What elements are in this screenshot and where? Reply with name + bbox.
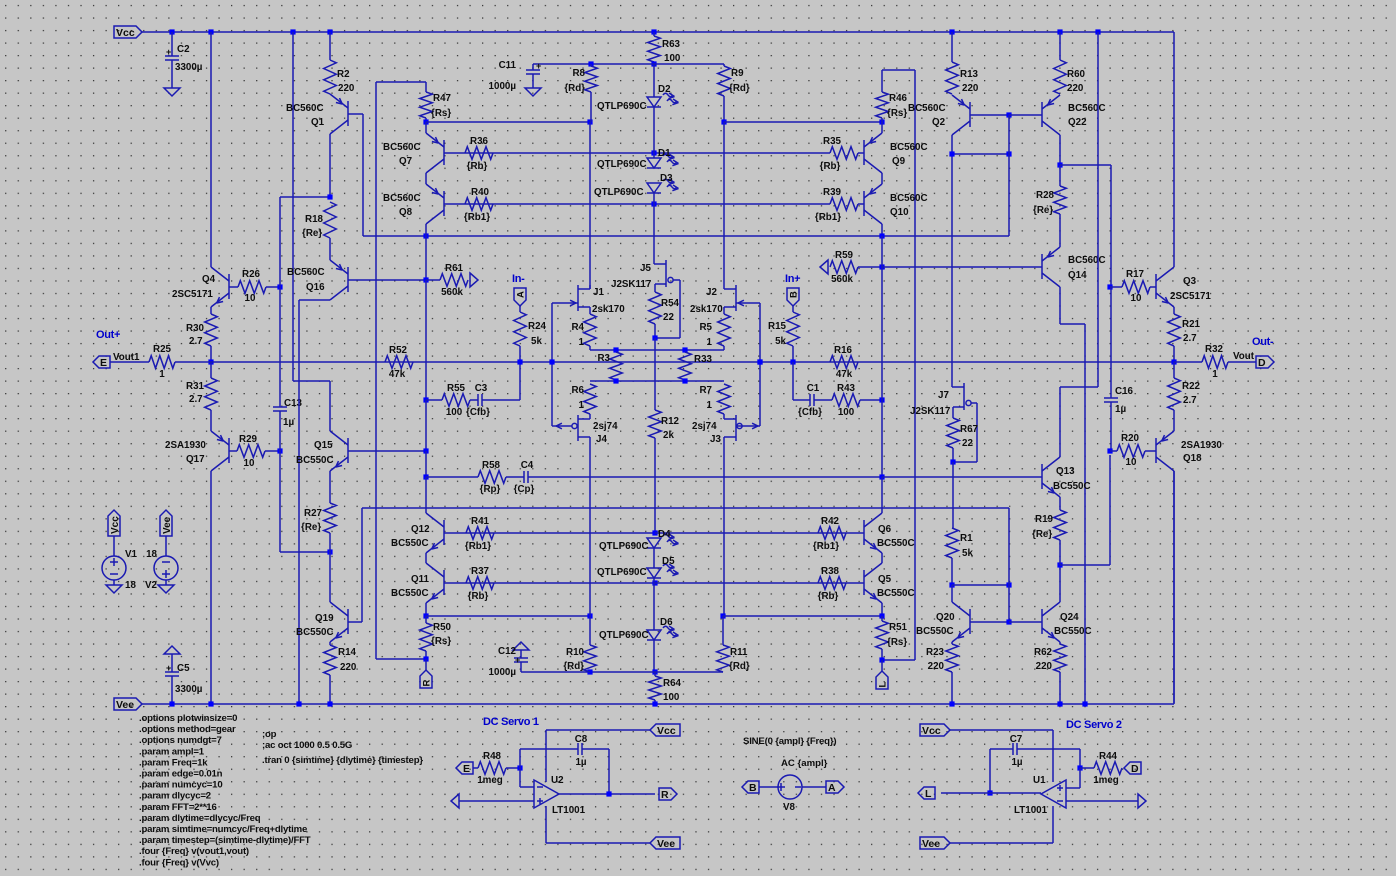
junction at (1060,565) bbox=[1057, 562, 1062, 567]
flag Vcc above V1 bbox=[108, 510, 120, 536]
svg-text:.options plotwinsize=0: .options plotwinsize=0 bbox=[139, 713, 237, 724]
svg-text:AC {ampl}: AC {ampl} bbox=[781, 758, 828, 769]
svg-text:220: 220 bbox=[338, 83, 355, 94]
transistor Q13 bbox=[1042, 457, 1060, 497]
svg-text:B: B bbox=[749, 782, 757, 794]
junction at (591,64) bbox=[588, 61, 593, 66]
resistor R36 bbox=[465, 136, 493, 172]
wire U1 V+ drop bbox=[1052, 730, 1054, 782]
junction at (882,236) bbox=[879, 233, 884, 238]
wire Vcc to R13 bbox=[951, 32, 953, 62]
svg-text:1: 1 bbox=[707, 337, 713, 348]
op-amp U1 LT1001 (mirrored) bbox=[1014, 775, 1066, 816]
wire R8 to junction bbox=[590, 92, 592, 122]
junction at (520,362) bbox=[517, 359, 522, 364]
resistor R47 bbox=[420, 92, 452, 119]
wire R14 to Vee bbox=[329, 675, 331, 704]
wire right bias column bbox=[914, 70, 916, 660]
wire R48 out bbox=[506, 767, 520, 769]
resistor R20 bbox=[1117, 433, 1145, 468]
svg-text:R: R bbox=[661, 789, 669, 801]
resistor R3 bbox=[597, 352, 700, 876]
wire J2/J3 gate column bbox=[759, 303, 761, 426]
capacitor C12 bbox=[489, 646, 528, 678]
svg-text:BC560C: BC560C bbox=[287, 267, 325, 278]
svg-text:R16: R16 bbox=[834, 345, 853, 356]
svg-text:R36: R36 bbox=[470, 136, 489, 147]
svg-text:R37: R37 bbox=[471, 566, 490, 577]
svg-text:C4: C4 bbox=[521, 460, 534, 471]
svg-text:BC550C: BC550C bbox=[391, 588, 429, 599]
transistor Q20 bbox=[952, 602, 970, 642]
svg-text:Q3: Q3 bbox=[1183, 276, 1197, 287]
junction at (426,477) bbox=[423, 474, 428, 479]
wire C3 out bbox=[482, 399, 520, 401]
ground below C11 bbox=[525, 88, 541, 96]
svg-text:1000µ: 1000µ bbox=[489, 667, 517, 678]
wire junction to Q7 bbox=[425, 122, 427, 133]
svg-text:D5: D5 bbox=[662, 556, 675, 567]
wire Q4 base lead bbox=[229, 286, 238, 288]
svg-text:R51: R51 bbox=[889, 622, 908, 633]
wire Q18 collector to Vee rail bbox=[1173, 471, 1175, 703]
wire R62 to Vee bbox=[1059, 672, 1061, 704]
svg-text:R47: R47 bbox=[433, 93, 452, 104]
junction at (609,794) bbox=[606, 791, 611, 796]
resistor R61 bbox=[440, 263, 468, 298]
svg-text:Q9: Q9 bbox=[892, 156, 906, 167]
junction at (655,672) bbox=[652, 669, 657, 674]
wire C7 left bbox=[990, 748, 1013, 750]
resistor R67 bbox=[947, 418, 979, 449]
wire R24 to node bbox=[519, 346, 521, 362]
wire to R11 bbox=[722, 616, 724, 645]
ground above C5 bbox=[164, 646, 180, 654]
svg-text:R58: R58 bbox=[482, 460, 501, 471]
svg-text:R46: R46 bbox=[889, 93, 908, 104]
junction at (590,122) bbox=[587, 119, 592, 124]
resistor R1 bbox=[946, 528, 974, 559]
svg-text:2sj74: 2sj74 bbox=[593, 421, 618, 432]
wire column bbox=[425, 477, 427, 513]
svg-text:Q5: Q5 bbox=[878, 574, 892, 585]
svg-text:18: 18 bbox=[125, 580, 136, 591]
wire to Q24 base bbox=[1009, 621, 1042, 623]
wire to R28 bbox=[1059, 165, 1061, 186]
svg-text:R9: R9 bbox=[731, 68, 744, 79]
svg-text:2SA1930: 2SA1930 bbox=[1181, 440, 1222, 451]
resistor R33 bbox=[679, 352, 713, 876]
JFET J4 2sj74 bbox=[552, 415, 618, 445]
svg-text:BC560C: BC560C bbox=[1068, 255, 1106, 266]
wire column to C13 bbox=[279, 197, 281, 407]
wire U1 V- drop bbox=[1052, 806, 1054, 843]
wire Q12-Q11 bbox=[425, 553, 427, 563]
wire upper cascode base line bbox=[444, 152, 830, 154]
junction at (426,451) bbox=[423, 448, 428, 453]
svg-text:C1: C1 bbox=[807, 383, 820, 394]
svg-text:2.7: 2.7 bbox=[189, 336, 203, 347]
wire cascode top right bbox=[724, 121, 882, 123]
wire R5 out bbox=[723, 346, 725, 350]
svg-text:22: 22 bbox=[962, 438, 973, 449]
svg-text:DC Servo 1: DC Servo 1 bbox=[483, 716, 539, 728]
svg-text:.options method=gear: .options method=gear bbox=[139, 724, 236, 735]
wire junction to Q9 bbox=[881, 122, 883, 133]
wire R35 to Q9 base bbox=[858, 152, 864, 154]
wire to U1 input bbox=[1079, 768, 1081, 788]
wire to R8 bbox=[590, 64, 592, 66]
wire left bias column bbox=[375, 82, 377, 659]
wire to R51 bbox=[881, 616, 883, 621]
wire R17 to Q3 base bbox=[1150, 286, 1156, 288]
svg-text:C11: C11 bbox=[499, 60, 517, 71]
wire inv input bbox=[520, 786, 534, 788]
wire C8 feedback riser bbox=[608, 749, 610, 794]
flag Vee for U2 bbox=[650, 837, 680, 849]
wire R19 out bbox=[1059, 540, 1061, 565]
svg-text:BC550C: BC550C bbox=[296, 455, 334, 466]
wire to R flag bbox=[425, 659, 427, 670]
svg-text:2sk170: 2sk170 bbox=[690, 304, 723, 315]
svg-text:BC550C: BC550C bbox=[916, 626, 954, 637]
svg-text:R6: R6 bbox=[571, 385, 584, 396]
resistor R9 bbox=[718, 66, 750, 96]
svg-text:R67: R67 bbox=[960, 424, 979, 435]
svg-text:BC560C: BC560C bbox=[890, 142, 928, 153]
transistor Q15 bbox=[330, 431, 348, 471]
wire second rail bbox=[363, 235, 1009, 237]
svg-text:560k: 560k bbox=[831, 274, 853, 285]
resistor R43 bbox=[832, 383, 860, 418]
wire E flag to R25 bbox=[110, 361, 149, 363]
wire to R10 bbox=[589, 616, 591, 645]
wire R1 bottom tie bbox=[952, 584, 1009, 586]
resistor R58 bbox=[478, 460, 506, 495]
wire U2 V+ supply bbox=[546, 729, 650, 731]
capacitor C13 bbox=[273, 398, 303, 428]
svg-text:R11: R11 bbox=[730, 647, 748, 658]
svg-text:J3: J3 bbox=[710, 434, 721, 445]
junction at (882,616) bbox=[879, 613, 884, 618]
junction at (1060,32) bbox=[1057, 29, 1062, 34]
svg-text:QTLP690C: QTLP690C bbox=[597, 101, 647, 112]
svg-text:{Rd}: {Rd} bbox=[729, 661, 750, 672]
resistor R28 bbox=[1033, 186, 1066, 216]
wire U1 V- supply bbox=[950, 842, 1053, 844]
svg-text:J2SK117: J2SK117 bbox=[611, 279, 652, 290]
wire R67 out bbox=[952, 448, 954, 462]
junction at (426,659) bbox=[423, 656, 428, 661]
svg-text:5k: 5k bbox=[531, 336, 542, 347]
svg-text:{Rd}: {Rd} bbox=[563, 661, 584, 672]
svg-text:Q14: Q14 bbox=[1068, 270, 1087, 281]
LED D3 bbox=[594, 173, 679, 198]
wire out node to R22 bbox=[1173, 362, 1175, 378]
svg-text:BC560C: BC560C bbox=[383, 142, 421, 153]
svg-text:;ac oct 1000 0.5 0.5G: ;ac oct 1000 0.5 0.5G bbox=[262, 740, 352, 751]
svg-text:C2: C2 bbox=[177, 44, 190, 55]
svg-text:C7: C7 bbox=[1010, 734, 1023, 745]
svg-text:.param ampl=1: .param ampl=1 bbox=[139, 746, 205, 757]
wire to Q13 collector bbox=[1060, 386, 1098, 388]
svg-text:R1: R1 bbox=[960, 533, 973, 544]
junction at (1098,32) bbox=[1095, 29, 1100, 34]
wire lower cascode base line bbox=[444, 203, 830, 205]
flag Vcc for U2 bbox=[650, 724, 680, 736]
junction at (882,267) bbox=[879, 264, 884, 269]
resistor R35 bbox=[820, 136, 858, 172]
wire to D2 bbox=[653, 64, 655, 97]
junction at (793,362) bbox=[790, 359, 795, 364]
junction at (882,660) bbox=[879, 657, 884, 662]
svg-text:J2: J2 bbox=[706, 287, 717, 298]
junction at (654,32) bbox=[651, 29, 656, 34]
svg-text:.param dlytime=dlycyc/Freq: .param dlytime=dlycyc/Freq bbox=[139, 813, 261, 824]
svg-text:220: 220 bbox=[928, 661, 945, 672]
port flag B (V8 -) bbox=[742, 781, 759, 793]
wire U2 output bbox=[559, 793, 655, 795]
junction at (685,381) bbox=[682, 378, 687, 383]
resistor R21 bbox=[1168, 314, 1201, 346]
svg-text:Vee: Vee bbox=[162, 516, 173, 534]
svg-text:R43: R43 bbox=[837, 383, 856, 394]
svg-text:D4: D4 bbox=[658, 529, 671, 540]
transistor Q22 bbox=[1042, 95, 1060, 135]
svg-text:BC550C: BC550C bbox=[1054, 626, 1092, 637]
wire Q24 emitter bbox=[1059, 642, 1061, 644]
svg-text:R62: R62 bbox=[1034, 647, 1053, 658]
svg-text:{Re}: {Re} bbox=[301, 522, 321, 533]
wire to Q20 bbox=[951, 585, 953, 602]
svg-text:QTLP690C: QTLP690C bbox=[597, 567, 647, 578]
svg-text:1µ: 1µ bbox=[1115, 404, 1126, 415]
port flag L (servo2 output) bbox=[918, 787, 935, 799]
svg-text:1: 1 bbox=[159, 369, 165, 380]
resistor R29 bbox=[237, 434, 265, 469]
wire to J5 bbox=[653, 204, 655, 264]
svg-text:V8: V8 bbox=[783, 802, 796, 813]
wire R6 to J4 bbox=[589, 414, 591, 419]
svg-text:{Rb}: {Rb} bbox=[467, 161, 488, 172]
junction at (211,362) bbox=[208, 359, 213, 364]
svg-text:R40: R40 bbox=[471, 187, 490, 198]
wire lower rung bbox=[590, 380, 724, 382]
svg-text:QTLP690C: QTLP690C bbox=[599, 630, 649, 641]
svg-text:R25: R25 bbox=[153, 344, 172, 355]
junction at (330,197) bbox=[327, 194, 332, 199]
wire Q24 collector bbox=[1059, 565, 1061, 602]
wire C13 to R29 junction bbox=[279, 411, 281, 451]
port flag D (Out-) bbox=[1256, 356, 1274, 368]
resistor R2 bbox=[324, 60, 355, 94]
wire to R58 bbox=[426, 476, 478, 478]
svg-text:In+: In+ bbox=[785, 273, 800, 285]
svg-text:560k: 560k bbox=[441, 287, 463, 298]
svg-text:1: 1 bbox=[579, 337, 585, 348]
port flag L (bias right) bbox=[876, 671, 888, 689]
wire Q5 emitter bbox=[881, 603, 883, 616]
transistor Q8 bbox=[426, 184, 444, 224]
wire upper rung bbox=[590, 349, 724, 351]
wire to L flag bbox=[881, 660, 883, 671]
svg-text:BC550C: BC550C bbox=[296, 627, 334, 638]
wire Q22 collector bbox=[1059, 135, 1061, 165]
resistor R7 bbox=[699, 384, 730, 414]
wire to R46 bbox=[881, 70, 883, 92]
port flag E (servo1 input) bbox=[456, 762, 473, 774]
svg-text:{Rs}: {Rs} bbox=[431, 108, 451, 119]
junction at (426,236) bbox=[423, 233, 428, 238]
junction at (654,64) bbox=[651, 61, 656, 66]
svg-text:D: D bbox=[1131, 763, 1139, 775]
wire Rd top line bbox=[533, 63, 724, 65]
junction at (426,280) bbox=[423, 277, 428, 282]
svg-text:{Rb1}: {Rb1} bbox=[465, 541, 491, 552]
svg-text:{Rb1}: {Rb1} bbox=[815, 212, 841, 223]
wire Q16 base to R61 node bbox=[348, 279, 426, 281]
resistor R40 bbox=[464, 187, 493, 223]
wire Q20 base bbox=[970, 621, 1009, 623]
svg-text:{Rb1}: {Rb1} bbox=[813, 541, 839, 552]
wire Q13 collector bbox=[1059, 387, 1061, 457]
wire out node to R31 bbox=[210, 362, 212, 378]
svg-text:.four {Freq} v(Vvc): .four {Freq} v(Vvc) bbox=[139, 857, 219, 868]
flag Vee above V2 bbox=[160, 510, 172, 536]
capacitor C1 bbox=[798, 383, 822, 418]
transistor Q2 bbox=[952, 95, 970, 135]
svg-text:{Rd}: {Rd} bbox=[564, 83, 585, 94]
wire Q3 emitter to R21 bbox=[1173, 307, 1175, 314]
svg-text:L: L bbox=[878, 682, 889, 688]
resistor R54 bbox=[649, 292, 680, 324]
junction at (280,287) bbox=[277, 284, 282, 289]
svg-text:E: E bbox=[463, 763, 470, 775]
svg-text:2.7: 2.7 bbox=[1183, 333, 1197, 344]
svg-text:BC550C: BC550C bbox=[1053, 481, 1091, 492]
resistor R22 bbox=[1168, 378, 1201, 410]
svg-text:R24: R24 bbox=[528, 321, 547, 332]
svg-text:.param dlycyc=2: .param dlycyc=2 bbox=[139, 791, 211, 802]
svg-text:{Re}: {Re} bbox=[1032, 529, 1052, 540]
wire J1/J4 gate column bbox=[551, 303, 553, 426]
svg-text:D: D bbox=[1258, 357, 1266, 369]
wire R47 to junction bbox=[425, 118, 427, 122]
wire Q13 base line bbox=[882, 476, 1042, 478]
svg-text:Vcc: Vcc bbox=[116, 27, 135, 39]
arrow flag left of R59 bbox=[820, 260, 828, 274]
svg-text:R42: R42 bbox=[821, 516, 840, 527]
svg-text:Vout: Vout bbox=[1233, 351, 1255, 362]
port flag A (V8 +) bbox=[826, 781, 844, 793]
arrow flag right of R61 bbox=[470, 273, 478, 287]
wire main feedback line bbox=[211, 361, 1174, 363]
svg-text:Q2: Q2 bbox=[932, 117, 946, 128]
transistor Q17 bbox=[211, 431, 229, 471]
svg-text:R22: R22 bbox=[1182, 381, 1201, 392]
svg-text:D1: D1 bbox=[658, 148, 671, 159]
wire bottom Rd line bbox=[521, 671, 723, 673]
svg-text:220: 220 bbox=[340, 662, 357, 673]
wire J5 source bbox=[654, 284, 656, 292]
junction at (723,616) bbox=[720, 613, 725, 618]
svg-text:10: 10 bbox=[1126, 457, 1137, 468]
wire to U2 inv input bbox=[519, 768, 521, 787]
wire Q2 base bbox=[970, 114, 1009, 116]
transistor Q6 bbox=[864, 513, 882, 553]
wire column bbox=[881, 267, 883, 400]
svg-text:BC560C: BC560C bbox=[286, 103, 324, 114]
resistor R39 bbox=[815, 187, 858, 223]
wire C4 to right side bbox=[528, 476, 882, 478]
wire U1 input bbox=[1066, 787, 1080, 789]
wire D3 out bbox=[653, 193, 655, 204]
junction at (426,400) bbox=[423, 397, 428, 402]
resistor R38 bbox=[818, 566, 846, 602]
resistor R8 bbox=[564, 66, 597, 94]
junction at (172,704) bbox=[169, 701, 174, 706]
resistor R17 bbox=[1122, 269, 1150, 304]
svg-text:2k: 2k bbox=[663, 430, 674, 441]
JFET J1 2sk170 bbox=[552, 285, 625, 315]
Vee supply flag bottom-left bbox=[114, 698, 142, 710]
svg-text:R50: R50 bbox=[433, 622, 452, 633]
svg-text:Q18: Q18 bbox=[1183, 453, 1202, 464]
junction at (760,362) bbox=[757, 359, 762, 364]
arrow flag at U1 non-inv input bbox=[1138, 794, 1146, 808]
svg-text:C8: C8 bbox=[575, 734, 588, 745]
svg-text:.four {Freq} v(vout1,vout): .four {Freq} v(vout1,vout) bbox=[139, 846, 249, 857]
wire C3 riser bbox=[519, 362, 521, 400]
wire Q15 collector bbox=[329, 381, 331, 431]
arrow flag at U2 non-inv input bbox=[451, 794, 459, 808]
svg-text:R15: R15 bbox=[768, 321, 787, 332]
svg-text:{Cfb}: {Cfb} bbox=[798, 407, 822, 418]
svg-text:R13: R13 bbox=[960, 69, 979, 80]
wire R29 to junction bbox=[265, 450, 280, 452]
svg-text:2SA1930: 2SA1930 bbox=[165, 440, 206, 451]
junction at (330,704) bbox=[327, 701, 332, 706]
wire Q17 base lead bbox=[229, 450, 237, 452]
wire R21 to out node bbox=[1173, 346, 1175, 362]
wire left emitter line bbox=[426, 615, 590, 617]
junction at (520,768) bbox=[517, 765, 522, 770]
capacitor C3 bbox=[466, 383, 490, 418]
wire center column bbox=[654, 338, 656, 410]
transistor Q4 bbox=[202, 267, 229, 307]
wire Q14 collector bbox=[1059, 287, 1061, 324]
wire column bbox=[425, 400, 427, 451]
port flag A (In-) bbox=[514, 288, 526, 306]
svg-text:1: 1 bbox=[1212, 369, 1218, 380]
svg-text:{Re}: {Re} bbox=[302, 228, 322, 239]
wire R32 to D flag bbox=[1228, 361, 1256, 363]
transistor Q14 bbox=[1042, 247, 1060, 287]
LED D5 bbox=[597, 556, 679, 578]
svg-text:+: + bbox=[536, 61, 541, 71]
wire to C8 bbox=[519, 749, 521, 768]
svg-text:R2: R2 bbox=[337, 69, 350, 80]
svg-text:Out+: Out+ bbox=[96, 329, 120, 341]
wire R46 out bbox=[881, 118, 883, 122]
svg-text:Q22: Q22 bbox=[1068, 117, 1087, 128]
wire Vcc to R2 bbox=[329, 32, 331, 60]
svg-text:{Rb}: {Rb} bbox=[818, 591, 839, 602]
svg-text:R64: R64 bbox=[663, 678, 682, 689]
flag Vee for U1 bbox=[920, 837, 950, 849]
wire R54 out bbox=[654, 324, 656, 338]
wire Q15 emitter to R27 bbox=[329, 471, 331, 503]
